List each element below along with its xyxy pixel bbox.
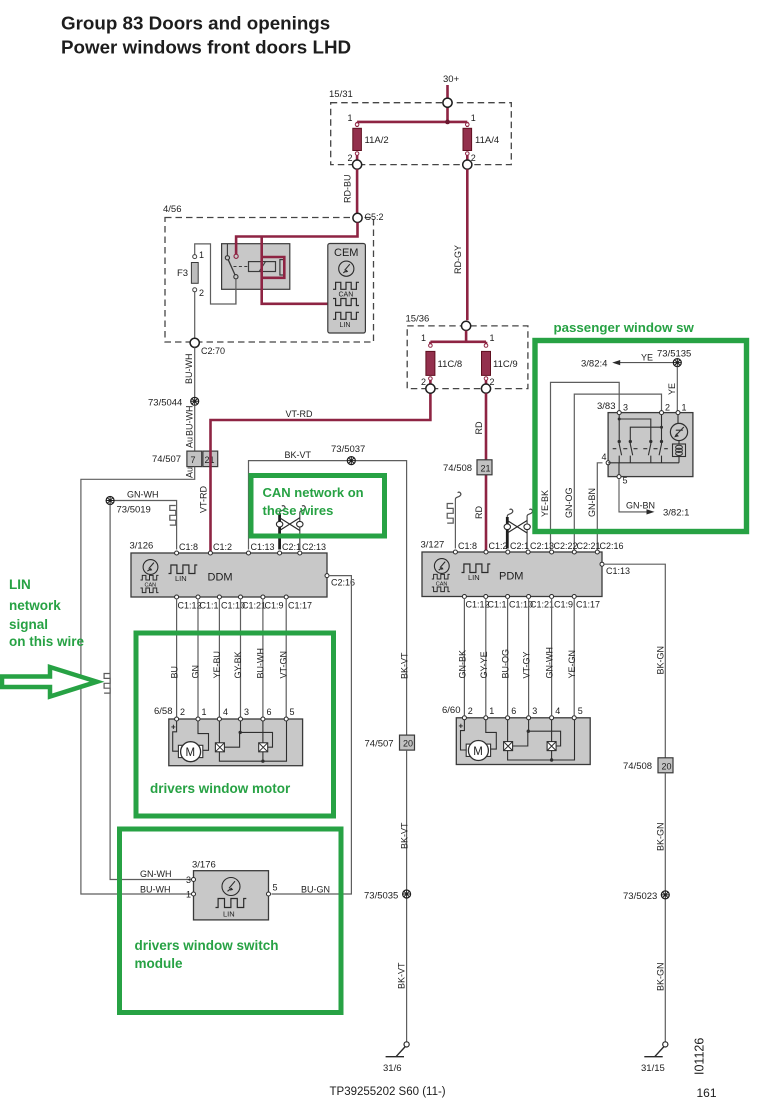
svg-text:GN-WH: GN-WH <box>545 647 555 679</box>
svg-text:73/5019: 73/5019 <box>117 505 151 516</box>
svg-text:Au: Au <box>185 437 195 448</box>
svg-text:C1:2: C1:2 <box>213 542 232 552</box>
junction dots 6/60 <box>527 730 530 733</box>
motor 6/60 <box>466 741 490 761</box>
svg-text:TP39255202 S60 (11-): TP39255202 S60 (11-) <box>330 1086 446 1098</box>
svg-text:RD: RD <box>474 421 484 434</box>
svg-text:3/176: 3/176 <box>192 860 216 871</box>
svg-text:5: 5 <box>623 476 628 486</box>
fuse 11C/9 <box>482 344 491 381</box>
svg-text:these wires: these wires <box>263 503 334 518</box>
fuse F3 <box>191 255 198 292</box>
svg-text:C1:9: C1:9 <box>265 601 284 611</box>
ground 31/15 <box>644 1042 668 1057</box>
CEM CAN wave upper <box>333 282 359 289</box>
svg-text:CAN network on: CAN network on <box>263 485 364 500</box>
wire pin3 YE-BK <box>551 382 620 549</box>
CAN wire thick to PDM C2:1 <box>506 517 509 549</box>
svg-text:LIN: LIN <box>175 574 187 583</box>
wire RD-BU <box>356 169 359 213</box>
DDM top pin circles <box>175 551 179 555</box>
svg-text:C1:2: C1:2 <box>489 541 508 551</box>
svg-text:5: 5 <box>273 883 278 893</box>
connector 74/508 pin 20 <box>658 758 673 773</box>
svg-text:4: 4 <box>555 706 560 716</box>
svg-text:DDM: DDM <box>208 572 233 584</box>
svg-text:2: 2 <box>665 403 670 413</box>
svg-text:11A/2: 11A/2 <box>365 135 389 146</box>
svg-text:C5:2: C5:2 <box>365 212 384 222</box>
svg-text:3/82:1: 3/82:1 <box>663 508 689 519</box>
connector C2:70 <box>190 338 199 347</box>
svg-text:C1:1: C1:1 <box>200 601 219 611</box>
green annotation box passenger window sw <box>535 341 747 532</box>
wire VT-RD <box>211 393 431 551</box>
green arrow <box>2 667 97 697</box>
svg-text:VT-RD: VT-RD <box>286 409 314 419</box>
splice 73/5135 <box>673 359 681 367</box>
junction dots 3/83 <box>618 418 621 421</box>
svg-text:1: 1 <box>471 113 476 123</box>
svg-text:6: 6 <box>511 706 516 716</box>
wire from DDM C2:16 <box>272 576 352 894</box>
svg-text:C1:8: C1:8 <box>458 541 477 551</box>
svg-text:C2:22: C2:22 <box>554 541 578 551</box>
relay switch output wire <box>235 279 237 304</box>
svg-text:RD-BU: RD-BU <box>343 175 353 204</box>
svg-text:C1:9: C1:9 <box>554 600 573 610</box>
svg-text:6/60: 6/60 <box>442 705 461 716</box>
wire F3 to relay switch <box>195 244 236 304</box>
connector circle 15/36 top <box>462 321 471 330</box>
wire BK-VT horizontal from DDM C1:13 <box>249 461 407 735</box>
svg-text:C2:13: C2:13 <box>302 542 326 552</box>
svg-text:BK-VT: BK-VT <box>285 450 312 460</box>
svg-text:GN-BK: GN-BK <box>457 650 467 679</box>
PDM LIN wave <box>462 564 491 573</box>
svg-text:C1:21: C1:21 <box>530 600 554 610</box>
svg-text:4: 4 <box>223 707 228 717</box>
connector circle 15/31 top <box>443 98 452 107</box>
svg-text:C2:70: C2:70 <box>201 346 225 356</box>
svg-text:on this wire: on this wire <box>9 634 85 649</box>
svg-text:11A/4: 11A/4 <box>475 135 499 146</box>
wire BU-WH to driver switch module <box>81 467 195 894</box>
svg-text:1: 1 <box>186 890 191 900</box>
svg-text:20: 20 <box>662 761 672 771</box>
3/83 regulator coil <box>673 444 686 457</box>
relay K box <box>222 244 290 290</box>
svg-text:C2:13: C2:13 <box>530 541 554 551</box>
connector circle 11A/4 out <box>463 160 472 169</box>
junction dots 6/58 <box>239 731 242 734</box>
svg-text:RD-GY: RD-GY <box>453 245 463 274</box>
svg-text:C1:13: C1:13 <box>606 566 630 576</box>
green annotation box drivers window switch module <box>120 829 342 1013</box>
DDM right pin C2:16 <box>325 574 329 578</box>
svg-text:PDM: PDM <box>499 571 523 583</box>
svg-text:LIN: LIN <box>340 322 351 329</box>
splice 73/5035 <box>403 890 411 898</box>
svg-text:GN-WH: GN-WH <box>140 869 172 879</box>
svg-text:7: 7 <box>191 455 196 465</box>
svg-text:74/507: 74/507 <box>365 739 394 750</box>
svg-text:M: M <box>186 747 196 759</box>
CAN pair PDM: curls <box>507 509 512 517</box>
svg-text:C1:8: C1:8 <box>179 542 198 552</box>
svg-text:3/127: 3/127 <box>421 540 445 551</box>
module 3/176 box <box>194 871 269 920</box>
splice 73/5037 <box>347 457 355 465</box>
CAN twist crossing DDM <box>280 518 300 531</box>
wire BU-WH upper <box>194 347 196 397</box>
connector circle 11C/9 out <box>481 384 490 393</box>
svg-text:C2:1: C2:1 <box>510 541 529 551</box>
svg-text:6: 6 <box>267 707 272 717</box>
3/176 LIN wave <box>216 899 247 908</box>
svg-text:+: + <box>459 721 464 730</box>
6/58 internal wires <box>219 721 286 761</box>
svg-text:1: 1 <box>202 707 207 717</box>
fuse box 15/36 dashed border <box>407 326 528 389</box>
relay switch blade <box>228 260 235 275</box>
splice 73/5023 <box>661 891 669 899</box>
svg-text:5: 5 <box>290 707 295 717</box>
wire YE down to pin 1 <box>676 367 678 411</box>
svg-text:GN: GN <box>191 665 201 679</box>
svg-text:LIN: LIN <box>9 577 31 592</box>
svg-text:network: network <box>9 598 61 613</box>
wire BK-GN lower <box>664 773 666 1042</box>
motor 6/58 <box>178 742 202 762</box>
svg-text:30+: 30+ <box>443 74 460 85</box>
fuse box 15/31 dashed border <box>331 103 512 165</box>
fuse 11A/4 <box>463 123 472 156</box>
svg-text:RD: RD <box>474 506 484 519</box>
fuse 11A/2 <box>353 123 362 156</box>
svg-text:YE: YE <box>641 353 653 363</box>
CEM LIN wave <box>333 312 359 319</box>
svg-text:73/5037: 73/5037 <box>331 444 365 455</box>
relay switch pin circles <box>225 256 229 260</box>
svg-text:I01126: I01126 <box>693 1038 707 1075</box>
svg-text:1: 1 <box>421 333 426 343</box>
CAN wire thin to C2:13 <box>299 514 301 550</box>
svg-text:LIN: LIN <box>468 573 480 582</box>
svg-text:2: 2 <box>348 153 353 163</box>
PDM module 3/127 box <box>422 552 602 597</box>
green annotation box CAN network <box>251 476 385 537</box>
PDM top pin circles <box>453 550 457 554</box>
svg-text:passenger window sw: passenger window sw <box>554 320 695 335</box>
svg-text:15/36: 15/36 <box>406 314 430 325</box>
svg-text:BK-GN: BK-GN <box>656 646 666 675</box>
svg-text:3/83: 3/83 <box>597 401 616 412</box>
svg-text:drivers window motor: drivers window motor <box>150 781 291 796</box>
svg-text:4: 4 <box>602 452 607 462</box>
svg-text:4/56: 4/56 <box>163 204 182 215</box>
switch module 3/83 box <box>608 413 693 477</box>
svg-text:15/31: 15/31 <box>329 89 353 100</box>
svg-text:1: 1 <box>682 403 687 413</box>
wire BK-GN from C1:13 <box>604 564 665 758</box>
wire BU-WH lower <box>194 405 196 451</box>
svg-text:C2:1: C2:1 <box>282 542 301 552</box>
svg-text:11C/9: 11C/9 <box>493 359 518 370</box>
svg-text:C1:17: C1:17 <box>576 600 600 610</box>
6/58 top pin circles <box>175 717 179 721</box>
PDM right pin C1:13 <box>600 562 604 566</box>
svg-text:F3: F3 <box>177 268 188 279</box>
splice 73/5019 <box>106 497 114 505</box>
CAN twist crossing PDM <box>507 521 527 534</box>
svg-text:73/5044: 73/5044 <box>148 398 182 409</box>
PDM bottom pin circles <box>462 595 466 599</box>
6/60 thermal switch 1 <box>504 742 513 751</box>
wires DDM to 6/58 <box>177 599 287 717</box>
svg-text:BU-OG: BU-OG <box>501 649 511 679</box>
DDM LIN wave <box>169 565 198 574</box>
svg-text:74/507: 74/507 <box>152 454 181 465</box>
wire RD-GY <box>466 169 469 320</box>
3/176 K symbol <box>222 878 240 896</box>
svg-text:C1:17: C1:17 <box>288 601 312 611</box>
svg-text:VT-GN: VT-GN <box>279 651 289 679</box>
svg-text:5: 5 <box>578 706 583 716</box>
relay coil actuator dashed link <box>234 266 249 268</box>
svg-text:BK-GN: BK-GN <box>655 822 665 851</box>
svg-text:73/5023: 73/5023 <box>623 891 657 902</box>
svg-text:2: 2 <box>180 707 185 717</box>
relay coil slash <box>259 262 265 272</box>
junction dot feed <box>445 120 450 125</box>
svg-text:YE: YE <box>667 383 677 395</box>
CEM CAN wave lower <box>333 299 359 306</box>
6/58 thermal switch 1 <box>215 743 224 752</box>
svg-text:1: 1 <box>348 113 353 123</box>
CAN wire thick to C2:1 <box>278 514 281 550</box>
svg-text:C1:1: C1:1 <box>488 600 507 610</box>
svg-text:3/126: 3/126 <box>130 541 154 552</box>
svg-text:Group 83 Doors and openings: Group 83 Doors and openings <box>61 13 330 34</box>
svg-text:161: 161 <box>697 1086 717 1100</box>
DDM CAN mini symbol <box>141 575 159 592</box>
svg-text:BU-WH: BU-WH <box>185 406 195 437</box>
fuse 11C/8 <box>426 344 435 381</box>
6/58 thermal switch 2 <box>259 743 268 752</box>
svg-text:2: 2 <box>199 288 204 298</box>
connector circle 11A/2 out <box>353 160 362 169</box>
svg-text:VT-GY: VT-GY <box>522 651 532 678</box>
3/83 internal wiring <box>608 415 679 475</box>
svg-text:31/15: 31/15 <box>641 1063 665 1074</box>
svg-text:21: 21 <box>481 463 491 473</box>
svg-text:BU: BU <box>170 666 180 679</box>
CEM module <box>328 244 366 334</box>
splice 73/5044 <box>191 397 199 405</box>
svg-text:3: 3 <box>186 875 191 885</box>
svg-text:1: 1 <box>199 250 204 260</box>
svg-text:6/58: 6/58 <box>154 706 173 717</box>
svg-text:BK-VT: BK-VT <box>400 652 410 679</box>
3/83 switch contacts <box>613 440 668 462</box>
red wire C5:2 to relay and CEM <box>236 223 357 304</box>
svg-text:CAN: CAN <box>339 292 354 299</box>
svg-text:YE-BU: YE-BU <box>212 651 222 679</box>
svg-text:3: 3 <box>532 706 537 716</box>
svg-text:GN-BN: GN-BN <box>626 501 655 511</box>
relay coil <box>249 262 276 272</box>
wire pin5 GN-BN to 3/82:1 <box>619 479 651 512</box>
wire BK-VT lower <box>406 750 408 1042</box>
CEM K symbol <box>339 261 354 276</box>
wire YE to 3/82:4 with arrow <box>615 362 677 364</box>
svg-text:drivers window switch: drivers window switch <box>135 938 279 953</box>
CAN twist ellipses DDM <box>276 521 282 527</box>
svg-text:BK-VT: BK-VT <box>397 962 407 989</box>
wire pin2 GN-OG <box>574 394 661 549</box>
svg-text:20: 20 <box>403 739 413 749</box>
svg-text:BK-GN: BK-GN <box>655 962 665 991</box>
svg-text:BK-VT: BK-VT <box>400 822 410 849</box>
svg-text:GN-OG: GN-OG <box>564 488 574 519</box>
svg-text:73/5035: 73/5035 <box>364 891 398 902</box>
svg-text:YE-GN: YE-GN <box>567 650 577 679</box>
6/60 motor wiring <box>461 720 497 750</box>
svg-text:2: 2 <box>468 706 473 716</box>
svg-text:C2:16: C2:16 <box>600 541 624 551</box>
red wires inside 15/36 <box>430 331 486 385</box>
BK-VT vertical: 74/507 pin 20 <box>400 735 415 750</box>
svg-text:Au: Au <box>185 467 195 478</box>
wire GN-WH (LIN) down to 3/176 pin 3 with squiggle <box>110 505 191 880</box>
connector 74/508 pin 21 <box>477 460 492 475</box>
wires PDM to 6/60 <box>464 598 574 715</box>
svg-text:GN-BN: GN-BN <box>587 488 597 517</box>
svg-text:CEM: CEM <box>334 247 358 259</box>
svg-text:73/5135: 73/5135 <box>657 349 691 360</box>
motor module 6/58 box <box>169 719 303 766</box>
svg-text:GN-WH: GN-WH <box>127 490 159 500</box>
CAN pair DDM: curl thick wire <box>280 506 285 514</box>
ground 31/6 <box>386 1042 410 1057</box>
CAN twist ellipses PDM <box>504 524 510 530</box>
svg-text:31/6: 31/6 <box>383 1063 402 1074</box>
wire F3 pin2 to C2:70 <box>194 292 196 338</box>
wire 30+ down to fusebox <box>446 85 449 98</box>
6/58 motor wiring <box>173 721 209 751</box>
svg-text:Power windows front doors LHD: Power windows front doors LHD <box>61 37 351 58</box>
green annotation box drivers window motor <box>136 633 334 816</box>
connector C5:2 <box>353 213 362 222</box>
wire pin4 GN-BN <box>597 463 602 550</box>
svg-text:74/508: 74/508 <box>443 463 472 474</box>
svg-text:3: 3 <box>623 403 628 413</box>
svg-text:VT-RD: VT-RD <box>199 485 209 513</box>
svg-text:BU-GN: BU-GN <box>301 885 330 895</box>
motor module 6/60 box <box>456 718 590 765</box>
wire RD <box>485 393 488 550</box>
connector 74/507 pin 21 <box>203 451 218 467</box>
svg-text:1: 1 <box>489 706 494 716</box>
DDM module 3/126 box <box>131 553 327 597</box>
svg-text:GY-YE: GY-YE <box>479 651 489 678</box>
wire GN-WH from splice 73/5019 to DDM C1:8 with LIN squiggle <box>110 501 177 550</box>
svg-text:+: + <box>171 723 176 732</box>
connector 74/507 pin 7 <box>187 451 202 467</box>
svg-text:BU-WH: BU-WH <box>256 648 266 679</box>
svg-text:C2:21: C2:21 <box>577 541 601 551</box>
connector circle 11C/8 out <box>426 384 435 393</box>
PDM CAN mini symbol <box>432 574 450 591</box>
svg-text:BU-WH: BU-WH <box>184 354 194 385</box>
svg-text:3: 3 <box>244 707 249 717</box>
svg-text:1: 1 <box>490 333 495 343</box>
svg-text:C1:13: C1:13 <box>251 542 275 552</box>
svg-text:YE-BK: YE-BK <box>540 490 550 517</box>
PDM LIN wire with squiggle and curl <box>455 492 460 500</box>
svg-text:11C/8: 11C/8 <box>438 359 463 370</box>
6/60 internal wires <box>508 720 575 760</box>
DDM K symbol <box>143 560 158 575</box>
svg-text:signal: signal <box>9 617 48 632</box>
svg-text:GY-BK: GY-BK <box>233 651 243 678</box>
svg-text:module: module <box>135 956 183 971</box>
svg-text:LIN: LIN <box>223 910 235 919</box>
svg-text:74/508: 74/508 <box>623 761 652 772</box>
3/83 lamp <box>670 423 687 440</box>
CAN wire thin to PDM C2:13 <box>526 517 528 549</box>
6/60 thermal switch 2 <box>547 742 556 751</box>
CAN pair DDM: curl thin wire <box>300 506 305 514</box>
3/83 pin circles <box>617 411 621 415</box>
svg-text:M: M <box>473 746 483 758</box>
relay resistor <box>280 260 284 275</box>
svg-text:2: 2 <box>421 377 426 387</box>
svg-text:BU-WH: BU-WH <box>140 885 171 895</box>
wire red feed inside 15/31 <box>357 107 467 160</box>
svg-text:3/82:4: 3/82:4 <box>581 359 607 370</box>
PDM K symbol <box>434 559 449 574</box>
relay box 4/56 dashed border <box>165 218 374 343</box>
relay switch common stub <box>226 244 228 256</box>
6/60 top pin circles <box>462 716 466 720</box>
DDM bottom pin circles <box>175 595 179 599</box>
3/176 pin circles <box>192 878 196 882</box>
